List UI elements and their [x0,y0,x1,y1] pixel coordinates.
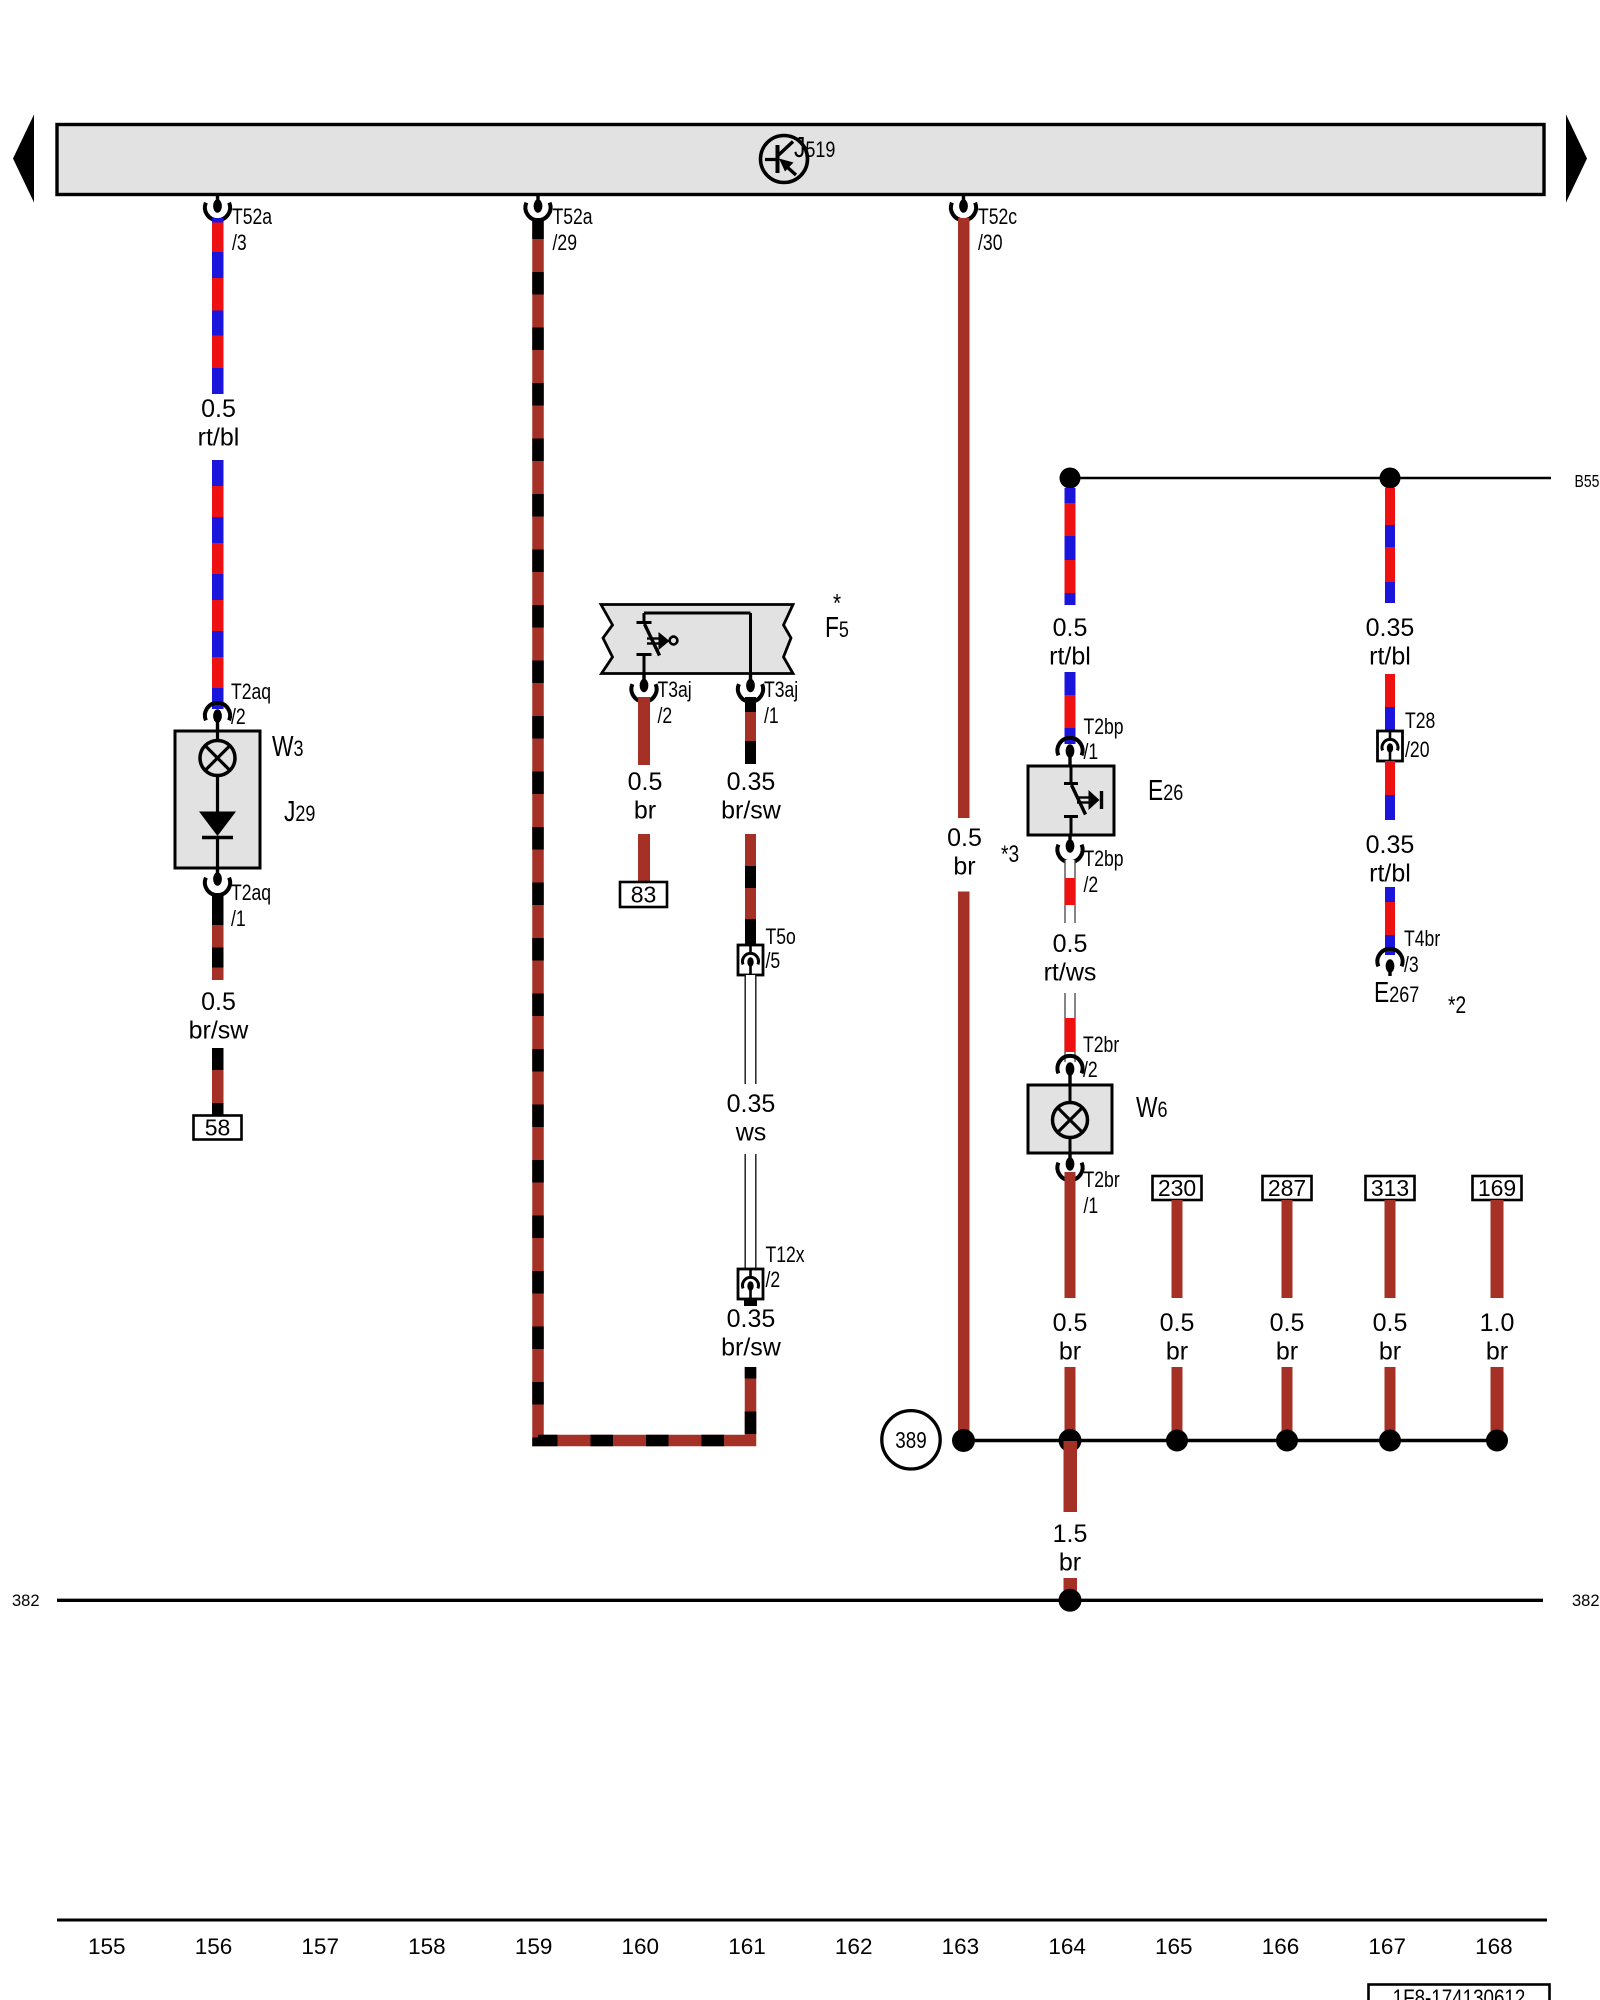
wire 0.5 br upper segment (col 160) [638,697,650,765]
svg-text:0.5: 0.5 [1160,1309,1195,1337]
svg-text:br/sw: br/sw [721,797,782,825]
svg-text:/20: /20 [1405,737,1430,762]
F5 internal wiring [644,612,751,615]
svg-text:26: 26 [1163,780,1183,805]
svg-text:/2: /2 [658,703,673,728]
svg-text:0.5: 0.5 [1373,1309,1408,1337]
svg-text:161: 161 [728,1934,766,1959]
ground box 169 [1473,1176,1522,1200]
wire 0.5 rt/ws segment (col 164) [1065,860,1076,923]
svg-text:29: 29 [295,801,315,826]
wire 0.5 br lower segment (col 163) [958,892,970,1442]
svg-text:167: 167 [1368,1934,1406,1959]
svg-text:0.5: 0.5 [1053,614,1088,642]
wire 0.35 rt/bl segment 4 (col 167) [1385,887,1395,955]
connector T2aq/1 [216,868,219,875]
connector T2bp/2 [1068,835,1071,842]
wire 0.5 rt/bl segment above E26 (col 164) [1065,672,1076,744]
svg-text:rt/bl: rt/bl [1369,643,1411,671]
svg-text:0.5: 0.5 [1053,930,1088,958]
svg-text:163: 163 [942,1934,980,1959]
svg-text:br/sw: br/sw [721,1334,782,1362]
node circle 389 [882,1411,940,1469]
svg-text:5: 5 [839,617,849,642]
svg-text:159: 159 [515,1934,553,1959]
junction node (col at 230) [1166,1430,1188,1452]
J519 control unit symbol [761,136,808,183]
svg-text:*3: *3 [1001,841,1019,868]
ground box 287 [1263,1176,1312,1200]
wire/net B559 line [1070,477,1551,480]
ground box 230 [1153,1176,1202,1200]
svg-text:165: 165 [1155,1934,1193,1959]
svg-text:0.35: 0.35 [727,768,776,796]
connector T2bp/1 [1066,744,1075,758]
bus arrow left [13,115,34,203]
wire 0.35 br/sw upper segment (col 161) [745,697,756,764]
svg-text:/2: /2 [1083,1057,1098,1082]
ground box 83 [620,882,667,907]
svg-text:T2br: T2br [1084,1167,1120,1192]
svg-text:E: E [1148,775,1163,807]
wire 0.5 br upper segment (to 287) [1282,1200,1293,1298]
svg-text:rt/ws: rt/ws [1044,959,1097,987]
svg-text:T52c: T52c [978,204,1017,229]
wire 1.5 br lower segment [1063,1578,1077,1591]
svg-text:br: br [1166,1338,1188,1366]
svg-text:J: J [284,796,295,828]
svg-text:W: W [1136,1092,1158,1124]
svg-text:br: br [1379,1338,1401,1366]
wire 1.0 br lower segment (to 169) [1491,1367,1504,1441]
wire 0.35 br/sw long U-run (col 159-161) [538,218,751,1441]
wire 0.5 rt/bl segment below B559 (col 164) [1065,488,1076,605]
connector T52a/29 pin at bus [536,194,539,202]
wire 0.5 br lower segment (to 287) [1282,1367,1293,1441]
junction node on 382 line [1059,1589,1082,1612]
bus bar J519 (power rail) [57,125,1544,195]
wire 0.35 ws lower segment (col 161) [745,1154,757,1269]
svg-text:/1: /1 [1084,739,1099,764]
svg-text:382: 382 [12,1592,40,1610]
svg-text:156: 156 [195,1934,233,1959]
svg-text:158: 158 [408,1934,446,1959]
svg-text:br: br [1276,1338,1298,1366]
connector T2br/1 [1068,1153,1071,1160]
svg-text:155: 155 [88,1934,126,1959]
svg-text:0.35: 0.35 [1366,831,1415,859]
wire 0.35 rt/bl segment 3 (col 167) [1385,761,1395,820]
svg-text:1F8-174130612: 1F8-174130612 [1393,1985,1526,2000]
connector T2br/2 [1066,1062,1075,1076]
ground wire junction line [964,1439,1498,1443]
svg-text:83: 83 [631,882,657,908]
svg-text:br: br [953,853,975,881]
svg-text:T4br: T4br [1404,926,1440,951]
svg-text:0.5: 0.5 [1053,1309,1088,1337]
svg-text:T3aj: T3aj [764,677,798,702]
svg-text:T28: T28 [1405,708,1435,733]
svg-text:T52a: T52a [232,204,273,229]
svg-text:ws: ws [735,1119,767,1147]
svg-text:rt/bl: rt/bl [198,424,240,452]
junction node (col at 287) [1276,1430,1298,1452]
svg-text:0.5: 0.5 [628,768,663,796]
svg-text:168: 168 [1475,1934,1513,1959]
bottom coordinate line [57,1919,1547,1922]
svg-text:519: 519 [805,137,835,162]
svg-text:169: 169 [1478,1175,1516,1201]
svg-text:313: 313 [1371,1175,1409,1201]
svg-text:T2aq: T2aq [231,880,271,905]
connector T3aj/2 [642,675,645,682]
svg-text:T5o: T5o [766,924,796,949]
inline connector T12x/2 [738,1269,763,1299]
svg-text:T52a: T52a [553,204,594,229]
net line 382 [57,1599,1543,1602]
F5 switch contact symbol [643,613,646,621]
wire 0.35 ws upper segment (col 161) [745,975,757,1084]
ground box 313 [1366,1176,1415,1200]
svg-text:1.0: 1.0 [1480,1309,1515,1337]
wire 0.5 br/sw upper segment (col 156) [212,893,224,980]
svg-text:/2: /2 [231,704,246,729]
svg-text:/1: /1 [1084,1193,1099,1218]
svg-text:br: br [1486,1338,1508,1366]
svg-text:/3: /3 [232,230,247,255]
wire 1.0 br upper segment (to 169) [1491,1200,1504,1298]
connector T3aj/1 [749,675,752,682]
svg-text:F: F [825,612,839,644]
svg-text:6: 6 [1158,1097,1168,1122]
svg-text:1.5: 1.5 [1053,1520,1088,1548]
svg-text:0.5: 0.5 [947,824,982,852]
connector T2aq/2 [213,709,222,723]
svg-text:382: 382 [1572,1592,1600,1610]
wire 0.35 rt/bl segment 1 (col 167) [1385,488,1395,603]
lamp W3 symbol [216,731,219,741]
junction node (col at 313) [1379,1430,1401,1452]
svg-text:3: 3 [294,736,304,761]
svg-text:W: W [272,731,294,763]
svg-text:0.35: 0.35 [727,1305,776,1333]
svg-text:164: 164 [1048,1934,1086,1959]
svg-text:160: 160 [622,1934,660,1959]
wire 1.5 br upper segment [1063,1441,1077,1512]
ground box 58 [194,1116,242,1140]
svg-text:58: 58 [205,1115,231,1141]
E26 switch symbol [1070,766,1073,782]
svg-text:/5: /5 [766,948,781,973]
lamp W6 box [1028,1085,1112,1153]
junction node (col at 169) [1486,1430,1508,1452]
svg-text:T2br: T2br [1083,1032,1119,1057]
node junction on B559 (col 164) [1060,468,1081,489]
wire 0.5 br lower segment (col 160) [638,834,650,881]
bus arrow right [1566,115,1587,203]
svg-text:/1: /1 [231,906,246,931]
inline connector T5o/5 [738,945,763,975]
svg-text:0.35: 0.35 [727,1090,776,1118]
connector T52a/3 pin at bus [216,194,219,202]
wire 0.5 rt/ws segment above W6 (col 164) [1065,993,1076,1062]
svg-text:rt/bl: rt/bl [1369,860,1411,888]
wire 0.5 br lower segment (col 164) [1065,1367,1076,1441]
wire 0.5 br upper segment (to 230) [1172,1200,1183,1298]
svg-text:389: 389 [895,1427,926,1453]
svg-text:T2bp: T2bp [1084,714,1124,739]
svg-text:E: E [1374,977,1389,1009]
svg-text:rt/bl: rt/bl [1049,643,1091,671]
lamp W3 / diode J29 box [175,731,260,868]
svg-text:T12x: T12x [766,1242,805,1267]
svg-text:162: 162 [835,1934,873,1959]
connector T52c/30 pin at bus [962,194,965,202]
wire 0.35 rt/bl segment 2 (col 167) [1385,674,1395,730]
svg-text:/2: /2 [766,1267,781,1292]
svg-text:br: br [634,797,656,825]
wire 0.5 br upper segment (col 164) [1065,1172,1076,1298]
switch F5 box [601,605,793,674]
svg-text:J: J [794,132,805,164]
junction node col 163 on ground line [952,1429,975,1452]
svg-text:B559: B559 [1575,471,1600,491]
inline connector T28/20 [1378,731,1403,761]
svg-text:0.5: 0.5 [201,395,236,423]
svg-text:br: br [1059,1549,1081,1577]
node junction on B559 (col 167) [1380,468,1401,489]
svg-text:166: 166 [1262,1934,1300,1959]
svg-text:0.35: 0.35 [1366,614,1415,642]
connector T4br/3 [1377,949,1402,967]
svg-text:0.5: 0.5 [1270,1309,1305,1337]
wire 0.35 br/sw mid segment (col 161) [745,834,756,944]
svg-text:*2: *2 [1448,992,1466,1019]
wire 0.5 br lower segment (to 230) [1172,1367,1183,1441]
svg-text:/30: /30 [978,230,1003,255]
svg-text:T2aq: T2aq [231,679,271,704]
wire 0.5 rt/bl upper segment (col 156) [212,218,224,394]
svg-text:br/sw: br/sw [189,1017,250,1045]
part number box 1F8-174130612 [1369,1985,1550,2000]
wire 0.5 br lower segment (to 313) [1385,1367,1396,1441]
svg-text:230: 230 [1158,1175,1196,1201]
svg-text:/1: /1 [764,703,779,728]
svg-text:/3: /3 [1404,952,1419,977]
svg-text:267: 267 [1389,982,1419,1007]
svg-text:157: 157 [301,1934,339,1959]
lamp W6 symbol [1069,1085,1072,1103]
svg-text:T3aj: T3aj [658,677,692,702]
svg-text:br: br [1059,1338,1081,1366]
svg-text:287: 287 [1268,1175,1306,1201]
svg-text:0.5: 0.5 [201,988,236,1016]
diode J29 symbol [216,775,219,812]
switch E26 box [1028,766,1114,835]
svg-text:T2bp: T2bp [1084,846,1124,871]
svg-text:/2: /2 [1084,872,1099,897]
wire 0.5 rt/bl lower segment (col 156) [212,460,224,709]
wire 0.5 br/sw lower segment (col 156) [212,1048,224,1116]
junction node (col 164) [1059,1429,1082,1452]
wire 0.5 br upper segment (col 163) [958,218,970,818]
svg-text:/29: /29 [553,230,578,255]
wire 0.5 br upper segment (to 313) [1385,1200,1396,1298]
wire stub below T12x [744,1299,757,1306]
